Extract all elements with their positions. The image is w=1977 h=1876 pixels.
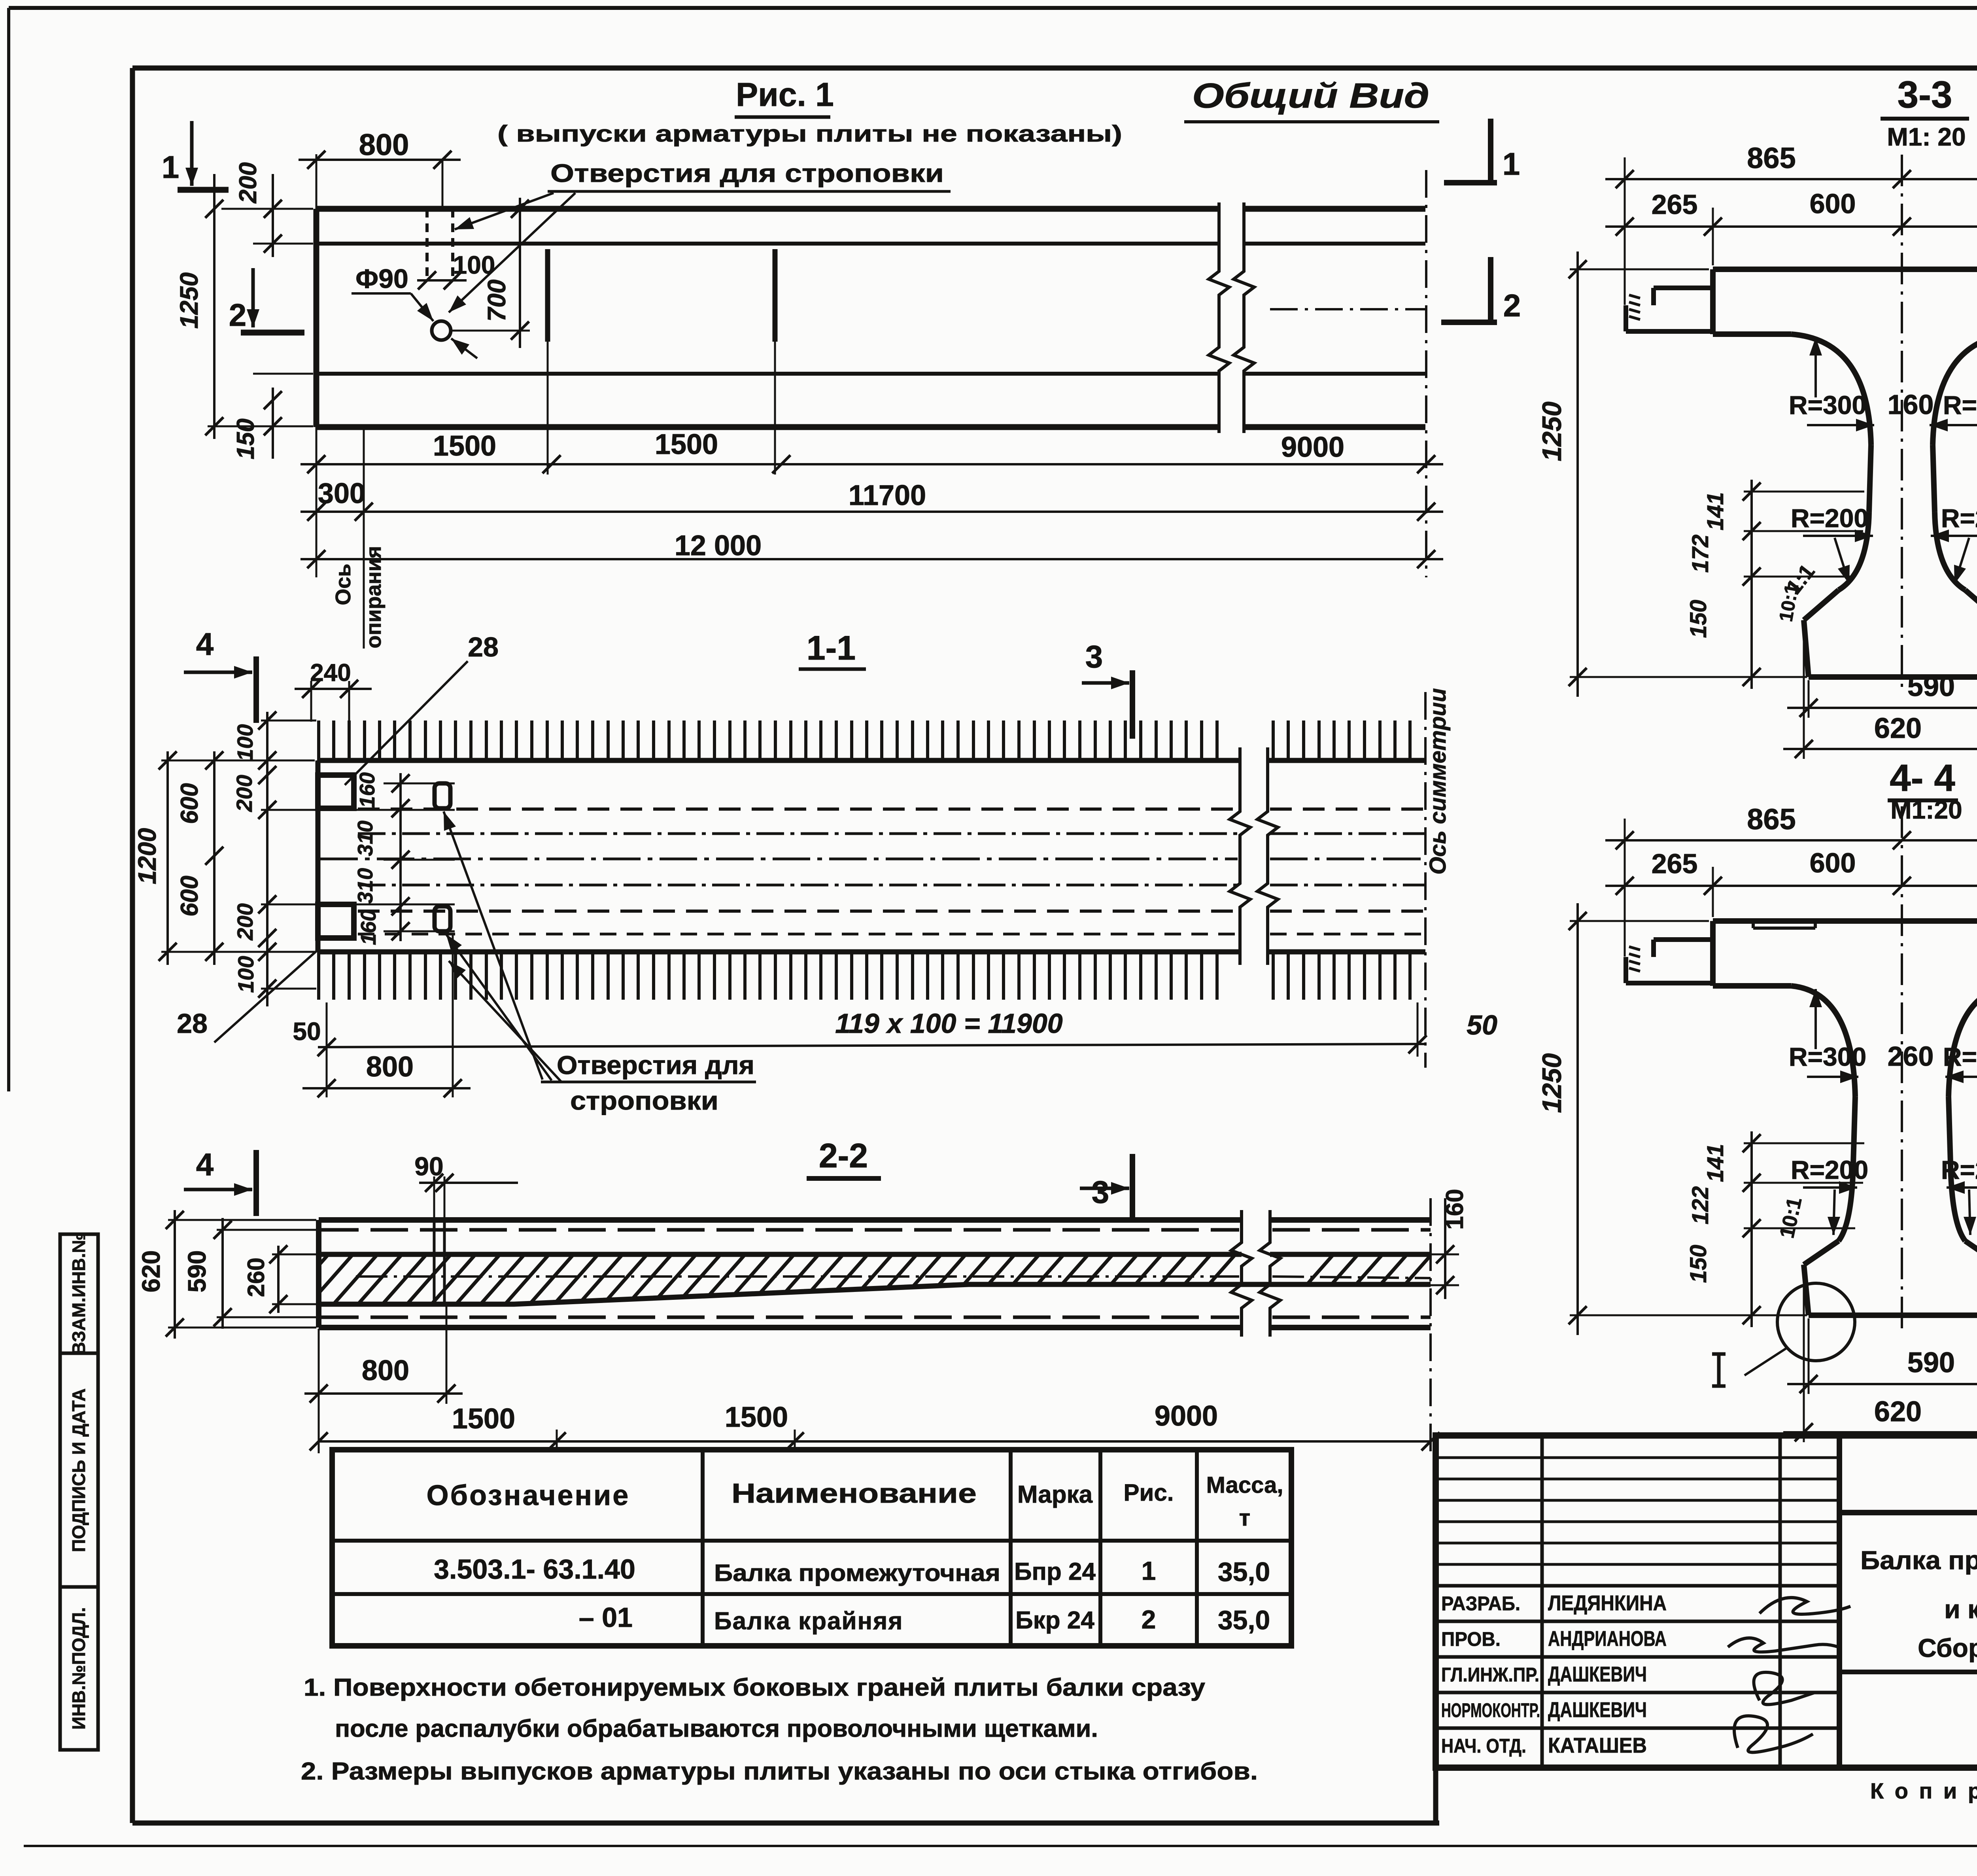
svg-text:Рис.: Рис.: [1124, 1479, 1174, 1506]
svg-text:1: 1: [1503, 146, 1520, 182]
svg-text:200: 200: [232, 775, 257, 812]
svg-text:11700: 11700: [849, 480, 926, 511]
svg-text:141: 141: [1703, 492, 1728, 531]
svg-text:Наименование: Наименование: [731, 1478, 977, 1509]
svg-text:Балка промежуточная Бпр 24: Балка промежуточная Бпр 24: [1860, 1545, 1977, 1575]
svg-text:865: 865: [1747, 142, 1796, 174]
svg-text:100: 100: [233, 956, 258, 993]
svg-text:150: 150: [1686, 600, 1711, 638]
svg-text:ВЗАМ.ИНВ.№: ВЗАМ.ИНВ.№: [68, 1233, 89, 1355]
svg-text:4: 4: [196, 626, 214, 662]
svg-text:R=200: R=200: [1941, 1155, 1977, 1184]
svg-text:К о п и р о в а л: К о п и р о в а л: [1870, 1778, 1977, 1803]
svg-text:Бкр 24: Бкр 24: [1015, 1607, 1094, 1634]
svg-text:НОРМОКОНТР.: НОРМОКОНТР.: [1441, 1699, 1540, 1721]
svg-text:600: 600: [176, 876, 203, 916]
svg-text:4- 4: 4- 4: [1890, 757, 1955, 799]
svg-text:240: 240: [310, 659, 351, 686]
svg-text:1500: 1500: [433, 430, 496, 462]
svg-text:2: 2: [1142, 1605, 1156, 1634]
svg-text:Отверстия для строповки: Отверстия для строповки: [550, 159, 944, 187]
svg-text:28: 28: [177, 1008, 208, 1039]
svg-text:800: 800: [362, 1355, 409, 1386]
svg-text:160: 160: [1888, 389, 1934, 420]
svg-text:200: 200: [234, 162, 262, 203]
svg-text:200: 200: [232, 903, 257, 940]
svg-text:Балка промежуточная: Балка промежуточная: [714, 1560, 1000, 1586]
svg-text:Отверстия для: Отверстия для: [557, 1050, 754, 1080]
svg-text:Марка: Марка: [1017, 1481, 1093, 1508]
svg-text:90: 90: [414, 1152, 443, 1181]
svg-text:1250: 1250: [175, 272, 203, 329]
svg-text:100: 100: [453, 251, 495, 279]
svg-text:600: 600: [1810, 188, 1856, 219]
svg-text:– 01: – 01: [579, 1602, 633, 1633]
svg-text:700: 700: [482, 280, 511, 322]
svg-text:R=300: R=300: [1789, 390, 1866, 420]
svg-text:160: 160: [357, 910, 380, 945]
svg-text:35,0: 35,0: [1218, 1557, 1270, 1587]
svg-text:ЛЕДЯНКИНА: ЛЕДЯНКИНА: [1548, 1591, 1667, 1615]
svg-text:3.503.1- 63.1.40: 3.503.1- 63.1.40: [434, 1554, 635, 1585]
svg-text:ИНВ.№ПОДЛ.: ИНВ.№ПОДЛ.: [68, 1607, 89, 1730]
svg-text:141: 141: [1703, 1144, 1728, 1182]
svg-text:50: 50: [293, 1017, 321, 1046]
svg-text:2-2: 2-2: [819, 1137, 868, 1175]
svg-text:ПОДПИСЬ И ДАТА: ПОДПИСЬ И ДАТА: [68, 1388, 89, 1552]
svg-text:600: 600: [1810, 847, 1856, 878]
svg-text:28: 28: [468, 632, 499, 662]
svg-text:1500: 1500: [725, 1401, 788, 1433]
svg-text:172: 172: [1688, 535, 1713, 573]
svg-text:т: т: [1239, 1505, 1250, 1531]
svg-text:122: 122: [1688, 1186, 1713, 1225]
svg-text:ПРОВ.: ПРОВ.: [1441, 1628, 1501, 1650]
svg-text:Сборочный чертеж: Сборочный чертеж: [1918, 1633, 1977, 1662]
svg-text:150: 150: [232, 418, 259, 459]
svg-text:R=200: R=200: [1791, 1155, 1868, 1184]
svg-text:590: 590: [1907, 1347, 1955, 1379]
svg-text:R=200: R=200: [1791, 503, 1868, 533]
svg-text:310: 310: [353, 868, 377, 904]
svg-text:1: 1: [162, 149, 180, 185]
svg-text:Масса,: Масса,: [1206, 1472, 1283, 1498]
svg-text:1-1: 1-1: [807, 629, 856, 667]
svg-text:Балка крайняя: Балка крайняя: [714, 1607, 903, 1635]
svg-text:160: 160: [1441, 1189, 1469, 1229]
svg-text:Общий Вид: Общий Вид: [1192, 76, 1429, 115]
svg-text:R=200: R=200: [1941, 503, 1977, 533]
svg-text:1200: 1200: [133, 828, 161, 884]
svg-text:КАТАШЕВ: КАТАШЕВ: [1548, 1734, 1647, 1757]
svg-text:1500: 1500: [655, 429, 718, 460]
svg-text:119 x 100 = 11900: 119 x 100 = 11900: [835, 1008, 1063, 1039]
svg-text:100: 100: [232, 724, 257, 761]
svg-text:и крайняя Бкр 24.: и крайняя Бкр 24.: [1944, 1594, 1977, 1624]
svg-text:4: 4: [196, 1147, 214, 1182]
svg-text:строповки: строповки: [570, 1086, 718, 1115]
svg-text:1: 1: [1142, 1556, 1156, 1585]
svg-text:12 000: 12 000: [675, 530, 762, 562]
svg-text:1250: 1250: [1537, 1053, 1567, 1113]
svg-text:590: 590: [1907, 671, 1955, 702]
svg-text:160: 160: [355, 772, 379, 808]
svg-text:590: 590: [183, 1250, 211, 1293]
svg-text:Обозначение: Обозначение: [427, 1480, 630, 1511]
svg-text:1. Поверхности обетонируемых: 1. Поверхности обетонируемых боковых гра…: [304, 1674, 1206, 1701]
svg-text:800: 800: [366, 1051, 414, 1083]
svg-text:800: 800: [359, 128, 409, 162]
svg-text:М1: 20: М1: 20: [1887, 123, 1966, 151]
svg-text:265: 265: [1652, 189, 1698, 220]
svg-text:( выпуски арматуры плиты н: ( выпуски арматуры плиты не показаны): [497, 121, 1122, 147]
svg-text:620: 620: [1874, 713, 1922, 744]
svg-text:865: 865: [1747, 803, 1796, 836]
svg-text:2: 2: [1503, 288, 1521, 323]
svg-text:R=300: R=300: [1789, 1042, 1866, 1071]
svg-text:опирания: опирания: [362, 546, 386, 648]
svg-text:3: 3: [1085, 639, 1103, 674]
svg-text:2. Размеры выпусков арматуры: 2. Размеры выпусков арматуры плиты указа…: [301, 1758, 1258, 1785]
svg-text:265: 265: [1652, 848, 1698, 879]
svg-text:50: 50: [1467, 1010, 1497, 1040]
svg-text:260: 260: [243, 1258, 269, 1297]
svg-text:Бпр 24: Бпр 24: [1014, 1558, 1096, 1585]
svg-text:2: 2: [229, 297, 247, 333]
svg-text:Ось: Ось: [331, 564, 355, 605]
svg-text:310: 310: [353, 821, 377, 856]
svg-text:НАЧ. ОТД.: НАЧ. ОТД.: [1441, 1735, 1526, 1757]
svg-text:ГЛ.ИНЖ.ПР.: ГЛ.ИНЖ.ПР.: [1441, 1664, 1539, 1686]
svg-text:ДАШКЕВИЧ: ДАШКЕВИЧ: [1548, 1662, 1647, 1686]
svg-text:3: 3: [1092, 1174, 1109, 1210]
svg-text:300: 300: [318, 478, 365, 509]
svg-text:9000: 9000: [1281, 431, 1344, 463]
svg-text:150: 150: [1686, 1245, 1711, 1283]
svg-text:АНДРИАНОВА: АНДРИАНОВА: [1548, 1627, 1667, 1651]
svg-text:620: 620: [1874, 1396, 1922, 1428]
svg-text:1250: 1250: [1537, 401, 1567, 461]
svg-text:600: 600: [176, 783, 203, 824]
svg-text:R=300: R=300: [1943, 390, 1977, 420]
svg-text:1500: 1500: [452, 1403, 515, 1435]
svg-text:9000: 9000: [1155, 1400, 1218, 1432]
svg-text:Рис. 1: Рис. 1: [736, 76, 834, 113]
svg-text:РАЗРАБ.: РАЗРАБ.: [1441, 1592, 1520, 1615]
svg-text:260: 260: [1888, 1041, 1934, 1072]
svg-text:35,0: 35,0: [1218, 1605, 1270, 1635]
svg-text:Ось симметрии: Ось симметрии: [1425, 688, 1451, 875]
svg-text:после распалубки обрабатываютс: после распалубки обрабатываются проволоч…: [335, 1715, 1098, 1742]
svg-text:R=300: R=300: [1943, 1042, 1977, 1071]
svg-text:3-3: 3-3: [1898, 74, 1952, 116]
svg-text:Ф90: Ф90: [355, 264, 408, 294]
svg-text:ДАШКЕВИЧ: ДАШКЕВИЧ: [1548, 1698, 1647, 1722]
svg-text:620: 620: [137, 1250, 165, 1293]
